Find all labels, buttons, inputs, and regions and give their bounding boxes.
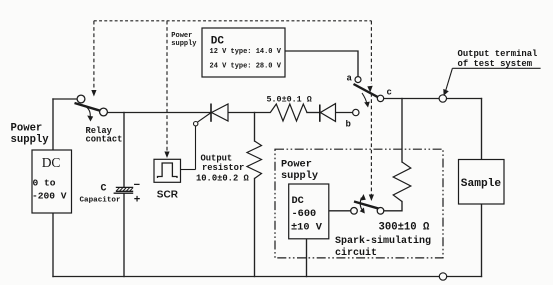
wire SCR gate (181, 113, 211, 170)
SCR trigger box (154, 159, 181, 182)
svg-text:Capacitor: Capacitor (80, 197, 121, 205)
output terminal node (439, 95, 446, 102)
wire diode to terminal b (336, 112, 353, 114)
capacitor C1 (114, 187, 134, 193)
spark supply box (289, 184, 329, 239)
dashed horizontal (94, 20, 372, 22)
svg-text:5.0±0.1 Ω: 5.0±0.1 Ω (267, 95, 312, 105)
svg-text:supply: supply (281, 170, 318, 182)
wire 300ohm top lead (401, 99, 403, 163)
wire output node horizontal (384, 98, 482, 100)
terminal b (353, 109, 359, 115)
svg-text:DC: DC (292, 195, 304, 207)
arrowhead SCR control (164, 152, 169, 159)
svg-text:supply: supply (171, 40, 197, 48)
resistor 5 ohm zigzag (270, 104, 307, 121)
wire left top horizontal (53, 98, 77, 100)
wire capacitor upper lead (123, 113, 125, 188)
svg-text:-600: -600 (292, 208, 317, 220)
svg-text:Output terminal: Output terminal (458, 49, 538, 59)
svg-text:+: + (134, 194, 141, 206)
SCR gate node (194, 122, 198, 126)
svg-text:SCR: SCR (157, 189, 179, 200)
svg-text:Power: Power (281, 159, 312, 171)
pulse symbol (158, 163, 178, 178)
svg-text:resistor: resistor (202, 163, 244, 173)
diode D1 (320, 104, 336, 122)
svg-text:-200 V: -200 V (32, 191, 67, 202)
wire 300ohm bottom lead (384, 202, 402, 211)
dashed control bus (94, 21, 372, 196)
svg-text:10.0±0.2 Ω: 10.0±0.2 Ω (196, 174, 250, 184)
arrowhead spark switch control (369, 195, 374, 202)
svg-text:300±10 Ω: 300±10 Ω (379, 222, 431, 234)
wire resistor to diode (307, 112, 319, 114)
output resistor R1 zigzag (247, 141, 262, 179)
svg-text:Power: Power (11, 122, 43, 134)
wire left vertical lower (52, 213, 54, 277)
wire sample bottom lead (481, 204, 483, 277)
wire spark supply to switch (329, 210, 351, 212)
svg-text:supply: supply (11, 134, 50, 146)
arrowhead relay control (91, 90, 96, 97)
dashed drop to SCR (166, 21, 168, 153)
svg-text:Sample: Sample (461, 178, 502, 190)
svg-text:DC: DC (211, 36, 225, 48)
svg-text:24 V type: 28.0 V: 24 V type: 28.0 V (210, 63, 282, 71)
spark-simulating circuit dash-dot box (275, 149, 443, 258)
wire thyristor to resistor junction (228, 112, 270, 114)
wire spark supply bottom lead (306, 239, 308, 277)
svg-text:C: C (101, 184, 107, 195)
relay contact (75, 95, 108, 117)
control supply box top (202, 28, 285, 77)
arrowhead a-c switch control (367, 86, 372, 93)
svg-text:±10 V: ±10 V (291, 222, 323, 234)
svg-text:circuit: circuit (335, 247, 377, 259)
svg-text:12 V type: 14.0 V: 12 V type: 14.0 V (210, 48, 282, 56)
svg-text:−: − (134, 180, 141, 192)
wire control supply to contact a (285, 51, 358, 77)
power supply box left (32, 150, 72, 213)
svg-text:contact: contact (86, 135, 123, 145)
wire output resistor top lead (254, 113, 256, 142)
sample box (459, 160, 505, 205)
wire relay to thyristor (107, 112, 210, 114)
svg-text:Power: Power (171, 32, 192, 40)
dashed drop to switches (370, 21, 372, 84)
svg-text:b: b (346, 120, 351, 130)
dashed drop to relay (93, 21, 95, 90)
svg-text:c: c (387, 88, 392, 98)
wire output resistor bottom lead (254, 179, 256, 277)
svg-text:DC: DC (42, 155, 61, 170)
thyristor U1 (211, 104, 228, 122)
wire sample top lead (481, 99, 483, 161)
wire capacitor lower lead (123, 193, 125, 276)
spark switch (351, 198, 384, 215)
wire left vertical upper (52, 99, 54, 150)
svg-text:0 to: 0 to (33, 178, 56, 189)
svg-text:Output: Output (201, 154, 233, 164)
svg-text:of test system: of test system (458, 59, 533, 69)
svg-text:Spark-simulating: Spark-simulating (335, 235, 431, 247)
svg-text:a: a (347, 74, 353, 84)
wire bottom bus (53, 276, 482, 278)
bottom terminal node (439, 273, 446, 280)
switch a-c (354, 77, 384, 104)
resistor 300 ohm zigzag (393, 162, 411, 202)
